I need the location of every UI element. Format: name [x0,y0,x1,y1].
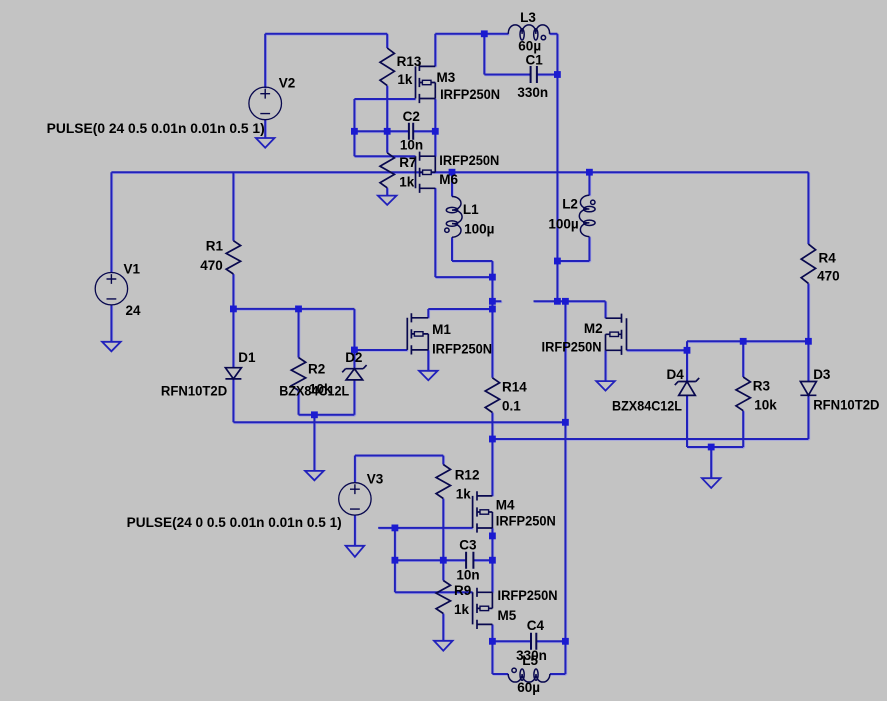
svg-text:330n: 330n [517,85,548,100]
svg-text:IRFP250N: IRFP250N [432,342,492,357]
svg-text:470: 470 [200,258,223,273]
svg-text:L2: L2 [562,197,578,212]
svg-text:1k: 1k [397,72,413,87]
svg-text:M3: M3 [437,70,456,85]
svg-text:C2: C2 [403,109,420,124]
svg-text:R3: R3 [753,379,771,394]
svg-text:V1: V1 [124,262,141,277]
svg-text:C4: C4 [527,618,545,633]
svg-text:D2: D2 [345,350,362,365]
svg-text:C1: C1 [526,53,544,68]
svg-text:L5: L5 [522,653,538,668]
svg-text:BZX84C12L: BZX84C12L [612,399,682,414]
svg-text:10n: 10n [400,137,423,152]
svg-text:D1: D1 [238,350,256,365]
svg-text:D4: D4 [667,367,685,382]
svg-text:0.1: 0.1 [502,398,521,413]
svg-text:C3: C3 [459,538,477,553]
svg-text:BZX84C12L: BZX84C12L [279,383,349,398]
svg-text:R13: R13 [397,54,422,69]
svg-text:L3: L3 [520,10,536,25]
svg-text:V2: V2 [279,75,296,90]
svg-text:60µ: 60µ [517,680,540,695]
svg-text:10n: 10n [456,568,479,583]
svg-text:1k: 1k [456,487,472,502]
svg-text:R12: R12 [455,468,480,483]
svg-text:470: 470 [817,269,840,284]
svg-text:100µ: 100µ [464,222,494,237]
svg-text:R1: R1 [206,239,224,254]
svg-text:M1: M1 [432,322,451,337]
svg-text:10k: 10k [754,397,777,412]
svg-text:IRFP250N: IRFP250N [440,87,500,102]
svg-text:V3: V3 [367,472,384,487]
svg-text:PULSE(0 24 0.5 0.01n 0.01n 0.5: PULSE(0 24 0.5 0.01n 0.01n 0.5 1) [47,121,265,136]
svg-text:M6: M6 [439,172,458,187]
svg-text:1k: 1k [399,174,415,189]
svg-text:1k: 1k [454,602,470,617]
svg-text:IRFP250N: IRFP250N [496,514,556,529]
svg-text:D3: D3 [813,367,831,382]
svg-text:R9: R9 [454,583,471,598]
svg-text:RFN10T2D: RFN10T2D [161,383,228,398]
svg-text:PULSE(24 0 0.5 0.01n 0.01n 0.5: PULSE(24 0 0.5 0.01n 0.01n 0.5 1) [127,515,342,530]
svg-text:M4: M4 [496,498,515,513]
svg-text:24: 24 [126,303,142,318]
svg-text:60µ: 60µ [518,39,541,54]
svg-text:R7: R7 [399,155,416,170]
svg-text:M2: M2 [584,321,603,336]
svg-text:IRFP250N: IRFP250N [439,153,499,168]
svg-text:IRFP250N: IRFP250N [498,588,558,603]
svg-text:R14: R14 [502,380,527,395]
svg-text:R2: R2 [308,361,325,376]
svg-text:100µ: 100µ [548,216,578,231]
svg-text:RFN10T2D: RFN10T2D [813,398,880,413]
svg-text:IRFP250N: IRFP250N [542,339,602,354]
svg-text:R4: R4 [819,251,837,266]
svg-text:L1: L1 [463,202,479,217]
svg-text:M5: M5 [498,608,517,623]
